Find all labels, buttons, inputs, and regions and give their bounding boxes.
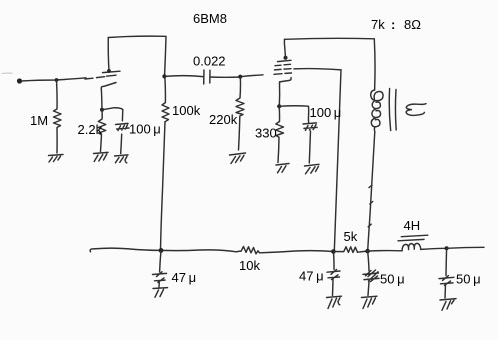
svg-text:330: 330 <box>255 126 277 141</box>
svg-text:50 μ: 50 μ <box>456 272 481 287</box>
node pentode cathode junction <box>277 104 281 108</box>
capacitor 100u triode bypass <box>116 123 129 130</box>
svg-text:47 μ: 47 μ <box>299 269 324 284</box>
svg-text:10k: 10k <box>239 258 260 273</box>
node plate load junction <box>162 74 166 78</box>
wire pentode cathode down <box>278 84 280 107</box>
resistor 330 <box>276 106 284 162</box>
wire 47u-1 to ground <box>158 282 160 288</box>
ground under 100u triode <box>115 155 128 163</box>
svg-text:1M: 1M <box>30 113 48 128</box>
wire choke to junction <box>421 248 447 249</box>
svg-text:220k: 220k <box>209 112 238 127</box>
ground under 50u-2 <box>440 299 456 311</box>
wire 5k to junction <box>358 251 368 252</box>
node rail junction 47u-2 <box>331 249 336 254</box>
wire screen grid <box>294 69 341 70</box>
inductor 4H core lines <box>398 235 428 241</box>
capacitor 50u-1 <box>363 270 379 282</box>
node triode cathode junction <box>100 108 104 112</box>
svg-text:6BM8: 6BM8 <box>193 11 227 26</box>
wire triode plate riser <box>107 38 110 72</box>
wire to pentode grid <box>240 75 263 77</box>
capacitor 47u-2 <box>327 270 340 280</box>
resistor 1M <box>54 80 62 153</box>
resistor 5k <box>333 247 357 253</box>
node 220k junction <box>238 75 242 79</box>
wire junction to choke <box>368 250 402 253</box>
wire rail to 50u-2 <box>445 248 448 275</box>
wire triode cathode down <box>100 89 103 110</box>
input terminal <box>17 78 22 83</box>
ground under 1M <box>49 155 64 163</box>
ground under 50u-1 <box>362 296 378 308</box>
svg-text:100k: 100k <box>172 103 201 118</box>
svg-text:100 μ: 100 μ <box>310 105 342 120</box>
ground under 47u-2 <box>327 296 342 308</box>
wire 50u-1 to ground <box>368 282 369 296</box>
svg-text:4H: 4H <box>404 218 421 233</box>
node pentode plate <box>284 56 288 60</box>
wire top-left horizontal <box>108 36 166 76</box>
wire transformer to rail <box>368 132 375 251</box>
capacitor 50u-2 <box>439 276 454 286</box>
wire cathode to bypass cap triode <box>102 108 123 121</box>
resistor 220k <box>236 77 244 150</box>
wire pentode plate riser <box>284 39 285 58</box>
ground under 2.2k <box>94 152 109 161</box>
node rail junction 50u-1 <box>365 249 370 254</box>
wire cap to ground <box>309 131 310 163</box>
resistor 2.2k <box>98 110 106 152</box>
node triode plate <box>107 69 111 73</box>
tube U1 pentode section <box>274 60 292 83</box>
wire input to grid <box>22 78 87 81</box>
transformer T1 core <box>389 89 396 131</box>
ground under 47u-1 <box>153 288 168 298</box>
wire cathode to bypass cap <box>279 106 308 123</box>
svg-text:5k: 5k <box>344 229 358 244</box>
svg-text:0.022: 0.022 <box>193 54 226 69</box>
node rail junction 50u-2 <box>445 246 449 250</box>
resistor 10k <box>237 247 260 254</box>
wire rail end <box>447 247 484 248</box>
wire 100k to rail <box>161 122 166 251</box>
svg-text:47 μ: 47 μ <box>172 270 197 285</box>
wire junction to coupling cap <box>164 75 202 78</box>
wire top-right horizontal <box>285 37 375 40</box>
ground under 330 <box>276 164 289 173</box>
capacitor 47u-1 <box>153 272 167 283</box>
wire rail to 50u-1 <box>368 251 369 271</box>
transformer T1 secondary <box>406 104 426 116</box>
wire B+ rail <box>90 248 236 252</box>
wire rail to 47u-2 <box>332 252 335 270</box>
wire rail to 47u-1 <box>160 250 161 272</box>
ground under 220k <box>230 153 246 164</box>
wire faint mark left edge <box>2 72 12 74</box>
wire cap to ground triode <box>121 134 122 154</box>
wire 50u-2 to ground <box>444 285 447 299</box>
svg-text:100 μ: 100 μ <box>129 122 161 137</box>
node input junction <box>55 78 59 82</box>
capacitor 0.022 <box>204 70 210 84</box>
node rail junction 47u-1 <box>159 248 164 253</box>
capacitor 100u pentode bypass <box>303 123 317 130</box>
wire cap to grid junction <box>210 76 240 78</box>
resistor 100k <box>162 76 169 121</box>
transformer T1 primary coil <box>371 90 383 101</box>
svg-text:50 μ: 50 μ <box>380 272 405 287</box>
wire rail 10k to 47u <box>260 251 334 253</box>
ground under 100u pentode <box>305 164 320 174</box>
wire screen to rail <box>334 70 341 251</box>
wire down to transformer <box>373 39 376 90</box>
svg-text:2.2k: 2.2k <box>78 122 103 137</box>
inductor 4H choke <box>402 243 421 250</box>
tube U1 triode section <box>85 71 120 88</box>
wire 47u-2 to ground <box>332 279 335 296</box>
